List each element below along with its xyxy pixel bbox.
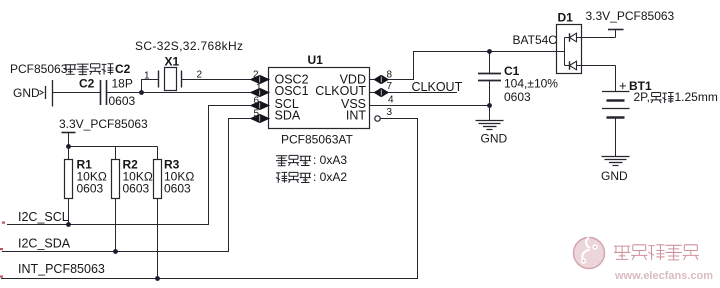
pin 5 SDA — [251, 115, 259, 122]
wire to X1 pin 1 — [142, 80, 159, 93]
svg-text:PCF85063: PCF85063 — [10, 62, 68, 76]
svg-text:SC-32S,32.768kHz: SC-32S,32.768kHz — [135, 39, 243, 53]
wire CLKOUT stub — [388, 92, 457, 94]
ground GND under BT1 — [601, 118, 630, 184]
svg-text:GND: GND — [601, 169, 628, 183]
svg-text:3: 3 — [387, 107, 393, 118]
pin 2 OSC2 — [251, 76, 259, 83]
power 3.3V_PCF85063 left — [59, 117, 148, 147]
junction C2/X1 — [139, 90, 144, 95]
svg-text:8: 8 — [387, 70, 393, 81]
svg-text:GND: GND — [13, 86, 40, 100]
resistor R2 10K — [112, 147, 153, 252]
junction rail — [66, 144, 71, 149]
pin 6 SCL — [251, 102, 259, 109]
wire X1 pin 2 to OSC2 — [182, 79, 253, 81]
battery BT1 — [602, 66, 718, 118]
svg-text:D1: D1 — [558, 11, 574, 25]
address note 0xA3 — [276, 153, 347, 167]
svg-text:2P,: 2P, — [634, 90, 650, 104]
svg-text:4: 4 — [388, 95, 394, 106]
svg-text:BAT54C: BAT54C — [513, 33, 558, 47]
svg-text:18P: 18P — [112, 77, 133, 91]
svg-text:1.25mm: 1.25mm — [675, 90, 718, 104]
svg-text:2: 2 — [253, 70, 259, 81]
pin 1 OSC1 — [251, 89, 259, 96]
svg-text:GND: GND — [481, 132, 508, 146]
ground GND under C1 — [476, 106, 508, 146]
svg-text:0603: 0603 — [164, 182, 191, 196]
svg-text:104,±10%: 104,±10% — [504, 77, 558, 91]
svg-text:INT_PCF85063: INT_PCF85063 — [18, 262, 105, 276]
svg-text:3.3V_PCF85063: 3.3V_PCF85063 — [59, 117, 148, 131]
junction R2/SDA — [113, 249, 118, 254]
svg-text:0603: 0603 — [123, 182, 150, 196]
watermark text — [614, 245, 699, 260]
port marks left edge — [0, 222, 5, 278]
power 3.3V_PCF85063 right — [586, 9, 675, 37]
svg-text:1: 1 — [256, 83, 262, 94]
svg-text:X1: X1 — [165, 55, 180, 69]
wire VSS — [370, 105, 490, 107]
pin 7 CLKOUT — [370, 92, 375, 94]
pin 8 VDD — [370, 79, 375, 81]
svg-text:U1: U1 — [308, 53, 324, 67]
watermark logo elecfans — [574, 238, 605, 269]
pin 3 INT bubble — [375, 116, 380, 121]
capacitor C1 104 0603 — [478, 52, 558, 106]
wire I2C_SCL — [7, 106, 252, 225]
svg-text:OSC1: OSC1 — [275, 84, 309, 98]
address note 0xA2 — [276, 170, 347, 184]
wire GND to C2 — [53, 92, 101, 94]
wire INT net — [1, 119, 418, 279]
svg-text:0603: 0603 — [504, 90, 531, 104]
wire VDD rail — [388, 52, 565, 80]
wire I2C_SDA — [2, 119, 252, 252]
svg-text:6: 6 — [254, 96, 260, 107]
svg-text:2: 2 — [197, 70, 203, 81]
svg-text:7: 7 — [387, 81, 393, 92]
junction R1/SCL — [66, 222, 71, 227]
note text PCF85063 C2 — [10, 62, 131, 76]
ground port GND left — [13, 80, 53, 107]
svg-text:INT: INT — [346, 109, 367, 123]
wire resistor top rail — [69, 146, 158, 148]
crystal X1 SC-32S 32.768kHz — [135, 39, 243, 91]
svg-text:3.3V_PCF85063: 3.3V_PCF85063 — [586, 9, 675, 23]
svg-text:www.elecfans.com: www.elecfans.com — [614, 270, 713, 282]
svg-text:1: 1 — [144, 71, 150, 82]
svg-text:CLKOUT: CLKOUT — [315, 84, 366, 98]
svg-text:I2C_SDA: I2C_SDA — [18, 236, 71, 250]
svg-text:C2: C2 — [79, 77, 95, 91]
junction VDD/C1 — [487, 49, 492, 54]
svg-text:SDA: SDA — [275, 109, 301, 123]
svg-text:: 0xA3: : 0xA3 — [313, 153, 347, 167]
svg-text:I2C_SCL: I2C_SCL — [18, 210, 69, 224]
junction R3/INT — [155, 276, 160, 281]
svg-text:CLKOUT: CLKOUT — [412, 80, 463, 94]
op IC U1 PCF85063AT — [269, 53, 370, 147]
svg-text:PCF85063AT: PCF85063AT — [281, 133, 353, 147]
svg-text:5: 5 — [254, 109, 260, 120]
svg-text:0603: 0603 — [77, 182, 104, 196]
wire C2 to OSC1 — [107, 92, 253, 94]
capacitor C2 18P 0603 — [79, 77, 136, 109]
svg-text:: 0xA2: : 0xA2 — [313, 170, 347, 184]
resistor R1 10K — [65, 147, 107, 225]
resistor R3 10K — [154, 147, 195, 279]
junction VSS/C1/GND — [487, 103, 492, 108]
svg-text:+: + — [619, 78, 627, 93]
diode D1 BAT54C — [513, 11, 616, 74]
svg-text:0603: 0603 — [109, 94, 136, 108]
svg-text:C2: C2 — [115, 62, 131, 76]
